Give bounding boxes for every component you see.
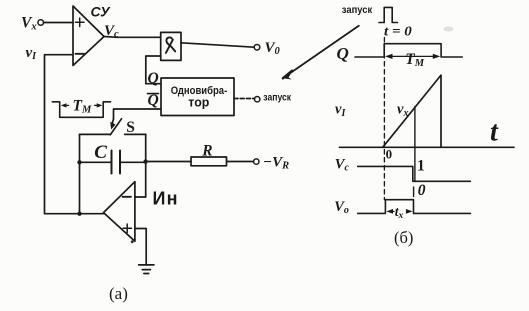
svg-text:TM: TM xyxy=(405,51,424,69)
wire Vx to U1 xyxy=(44,22,73,24)
terminal Vx xyxy=(38,20,44,26)
trigger pulse waveform xyxy=(379,7,398,22)
guide line at tx xyxy=(414,107,415,197)
svg-text:0: 0 xyxy=(386,147,393,162)
wire cap node to resistor xyxy=(146,161,191,163)
pin - of U1 xyxy=(76,53,85,55)
wire U3 plus input to ground xyxy=(135,229,146,265)
svg-text:S: S xyxy=(126,119,135,136)
svg-text:0: 0 xyxy=(418,182,426,199)
Q waveform xyxy=(355,44,462,57)
dashed guide line at t=0 xyxy=(383,38,385,200)
svg-text:R: R xyxy=(201,143,212,160)
svg-text:C: C xyxy=(94,142,107,163)
node junction dot xyxy=(77,212,81,216)
svg-text:Vx: Vx xyxy=(21,14,37,32)
svg-text:vx: vx xyxy=(397,101,408,119)
svg-text:t: t xyxy=(490,117,499,148)
svg-text:Vc: Vc xyxy=(335,157,350,174)
pin + of U1 xyxy=(76,18,85,27)
switch S xyxy=(80,133,111,135)
node dot cap right xyxy=(143,159,147,163)
wire запуск output xyxy=(234,98,254,100)
dimension arrow tx xyxy=(390,210,411,212)
V0 waveform xyxy=(358,200,471,214)
svg-text:1: 1 xyxy=(417,158,425,175)
terminal запуск xyxy=(255,97,260,102)
v1 axis xyxy=(339,146,514,148)
ground xyxy=(139,265,154,274)
wire Vc (U1 output to AND gate) xyxy=(104,36,161,39)
svg-text:Q: Q xyxy=(337,44,349,63)
wire resistor to -VR terminal xyxy=(227,161,254,163)
svg-text:тор: тор xyxy=(188,95,209,109)
svg-text:tx: tx xyxy=(395,204,404,221)
faint smudge xyxy=(444,27,454,32)
svg-text:Q: Q xyxy=(148,70,159,87)
svg-text:vI: vI xyxy=(335,101,346,119)
comparator U1 (СУ) xyxy=(73,6,104,66)
svg-text:TM: TM xyxy=(73,98,92,116)
svg-text:(а): (а) xyxy=(109,284,128,303)
arrow left of TM xyxy=(63,104,69,106)
svg-text:−VR: −VR xyxy=(263,155,289,172)
wire Q (one-shot Q output to AND input) xyxy=(146,56,161,84)
wire left branch (switch/cap left node down to output wire) xyxy=(79,134,81,213)
big arrow (trigger applies to circuit) xyxy=(286,26,359,76)
resistor R xyxy=(191,157,227,166)
svg-text:СУ: СУ xyxy=(91,3,112,19)
label & xyxy=(166,37,175,51)
dimension arrow TM xyxy=(389,55,437,57)
AND gate D1 xyxy=(161,32,181,60)
arrow right of TM xyxy=(95,104,101,106)
v1 ramp waveform xyxy=(383,75,441,147)
terminal V0 xyxy=(254,45,260,51)
svg-text:запуск: запуск xyxy=(263,92,291,104)
annotation TM pulse bracket xyxy=(52,102,110,118)
svg-text:vI: vI xyxy=(26,45,38,62)
one-shot U2 xyxy=(161,78,234,116)
node dot cap left xyxy=(77,160,81,164)
svg-text:t = 0: t = 0 xyxy=(384,24,412,39)
terminal -VR xyxy=(254,159,259,164)
pin + of U3 xyxy=(123,224,132,233)
pin - of U3 xyxy=(123,196,132,198)
op-amp U3 integrator (ИН) xyxy=(104,182,135,242)
svg-text:Q: Q xyxy=(148,92,159,109)
stray ink speck xyxy=(131,240,134,243)
wire Q-bar (one-shot to switch control) xyxy=(114,109,161,119)
Vc waveform xyxy=(358,166,471,181)
wire U3 minus input xyxy=(135,196,146,198)
arrow switch control xyxy=(112,119,114,127)
wire right branch (switch right down to U3 minus input) xyxy=(145,134,147,197)
svg-text:V0: V0 xyxy=(265,40,281,57)
capacitor C xyxy=(80,161,146,163)
svg-text:(б): (б) xyxy=(394,228,413,247)
wire AND output to V0 terminal xyxy=(181,43,254,47)
wire v1 feedback (U3 output to U1 minus input) xyxy=(45,55,104,214)
svg-text:Vo: Vo xyxy=(334,199,349,216)
svg-text:запуск: запуск xyxy=(342,4,373,16)
svg-text:Ин: Ин xyxy=(153,188,179,208)
